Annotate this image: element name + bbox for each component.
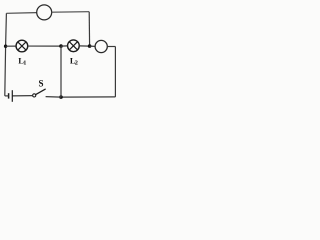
wire middle vertical: node C to node D <box>60 46 62 97</box>
lamp L2 <box>68 40 80 52</box>
svg-text:1: 1 <box>23 60 26 67</box>
node A (left junction dot) <box>4 45 7 48</box>
wire left vertical <box>5 13 7 96</box>
node B (junction dot right of L2) <box>88 44 92 48</box>
wire L2 to node B <box>79 45 89 47</box>
wire top-right horizontal segment <box>52 11 90 14</box>
wire top-left horizontal segment <box>6 12 36 15</box>
switch S <box>33 89 46 97</box>
wire node B to meter M2 <box>90 45 96 47</box>
wire top-right vertical drop to node B <box>88 12 90 46</box>
wire meter M2 to right edge <box>107 46 115 48</box>
wire bottom: node D to switch <box>46 96 61 99</box>
svg-text:S: S <box>39 79 44 89</box>
wire battery to left vertical <box>5 95 9 97</box>
wire bottom: right corner to node D <box>61 96 115 98</box>
wire switch to battery <box>12 95 32 97</box>
wire L1 to node C <box>28 45 61 47</box>
node C (junction dot between L1 and L2) <box>59 44 63 48</box>
node D (bottom junction dot) <box>59 95 63 99</box>
wire node C to L2 <box>61 45 68 47</box>
battery short plate (-) <box>8 93 10 98</box>
wire right vertical <box>114 47 116 97</box>
meter M1 (top circle) <box>37 5 52 20</box>
svg-text:2: 2 <box>75 60 78 67</box>
meter M2 (right circle) <box>95 40 107 52</box>
battery B1 <box>9 90 13 102</box>
wire middle branch: node A to L1 <box>6 45 17 47</box>
battery long plate (+) <box>11 90 13 102</box>
lamp L1 <box>16 40 28 52</box>
